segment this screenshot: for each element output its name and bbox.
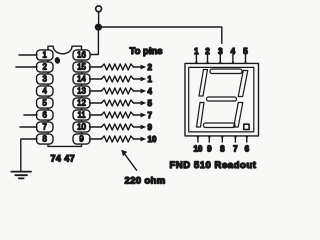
resistor R2 220 ohm — [102, 76, 134, 82]
terminal V+ — [96, 6, 102, 12]
pin 10 of U1 — [73, 122, 90, 132]
decimal point — [244, 124, 249, 129]
svg-text:7: 7 — [148, 111, 153, 120]
svg-text:10: 10 — [148, 135, 157, 144]
wire junction to display pin 3 — [99, 27, 222, 43]
resistor R4 220 ohm — [102, 100, 134, 106]
svg-text:9: 9 — [79, 135, 83, 144]
svg-text:3: 3 — [43, 75, 47, 84]
segment g — [207, 97, 237, 101]
wire lead pin 11 to resistor R5 — [90, 114, 102, 116]
svg-text:220 ohm: 220 ohm — [125, 176, 166, 187]
resistor R7 220 ohm — [102, 136, 134, 142]
pin 4 of U1 — [37, 86, 54, 96]
resistor R1 220 ohm — [102, 64, 134, 70]
wire pin 8 to ground — [21, 139, 37, 171]
svg-text:1: 1 — [148, 75, 153, 84]
pin 4 of display (top) — [231, 47, 236, 64]
pin 5 of display (top) — [243, 47, 248, 64]
pin 11 of U1 — [73, 110, 90, 120]
svg-text:To pins: To pins — [130, 46, 163, 57]
IC U1 7447 body — [48, 46, 82, 146]
svg-text:9: 9 — [148, 123, 153, 132]
svg-text:74 47: 74 47 — [51, 154, 76, 164]
wire junction to pin 16 — [90, 27, 99, 54]
pin 14 of U1 — [73, 74, 90, 84]
junction node — [95, 24, 102, 31]
pin 10 of display (bottom) — [193, 136, 202, 154]
arrow to display pin 1 — [134, 77, 147, 82]
wire lead pin 14 to resistor R2 — [90, 78, 102, 80]
svg-text:2: 2 — [205, 47, 210, 56]
arrow to display pin 2 — [134, 65, 147, 70]
svg-text:13: 13 — [77, 87, 86, 96]
svg-text:15: 15 — [77, 63, 86, 72]
svg-text:10: 10 — [193, 145, 202, 154]
svg-text:2: 2 — [43, 63, 47, 72]
svg-text:12: 12 — [77, 99, 86, 108]
svg-text:8: 8 — [43, 135, 47, 144]
svg-text:3: 3 — [218, 47, 223, 56]
wire lead pin 9 to resistor R7 — [90, 138, 102, 140]
pin 2 of display (top) — [205, 47, 210, 64]
svg-text:14: 14 — [77, 75, 86, 84]
display U2 FND510 package outer — [185, 63, 259, 135]
arrow to display pin 7 — [134, 113, 147, 118]
pin 8 of display (bottom) — [220, 136, 225, 154]
pin 12 of U1 — [73, 98, 90, 108]
svg-text:FND 510 Readout: FND 510 Readout — [170, 160, 257, 171]
wire lead pin 10 to resistor R6 — [90, 126, 102, 128]
wire lead pin 12 to resistor R4 — [90, 102, 102, 104]
svg-text:8: 8 — [220, 145, 225, 154]
ground — [11, 172, 31, 179]
pin 15 of U1 — [73, 62, 90, 72]
svg-text:5: 5 — [243, 47, 248, 56]
arrow to display pin 5 — [134, 101, 147, 106]
wire pin 1 input stub — [19, 54, 37, 56]
pin 2 of U1 — [37, 62, 54, 72]
pin 3 of U1 — [37, 74, 54, 84]
wire pin 2 input stub — [16, 66, 37, 68]
resistor R5 220 ohm — [102, 112, 134, 118]
svg-text:7: 7 — [233, 145, 238, 154]
wire terminal to junction — [98, 12, 100, 24]
pin 1 of U1 — [37, 50, 54, 60]
arrow to display pin 10 — [134, 137, 147, 142]
svg-text:4: 4 — [231, 47, 236, 56]
svg-text:16: 16 — [77, 51, 86, 60]
svg-text:1: 1 — [43, 51, 47, 60]
svg-text:1: 1 — [194, 47, 199, 56]
arrow to display pin 9 — [134, 125, 147, 130]
arrow 220 ohm callout — [121, 150, 136, 171]
pin 9 of U1 — [73, 134, 90, 144]
wire pin 6 input stub — [24, 114, 37, 116]
pin 3 of display (top) — [218, 47, 223, 64]
pin 7 of display (bottom) — [233, 136, 238, 154]
pin 1 of display (top) — [194, 47, 199, 64]
segment e — [197, 103, 205, 128]
svg-text:5: 5 — [43, 99, 48, 108]
svg-text:5: 5 — [148, 99, 153, 108]
wire lead pin 15 to resistor R1 — [90, 66, 102, 68]
svg-text:4: 4 — [43, 87, 48, 96]
pin 1 index dot — [54, 57, 61, 65]
resistor R6 220 ohm — [102, 124, 134, 130]
svg-text:7: 7 — [43, 123, 47, 132]
pin 9 of display (bottom) — [207, 136, 212, 154]
pin 6 of display (bottom) — [245, 136, 250, 154]
pin 8 of U1 — [37, 134, 54, 144]
pin 13 of U1 — [73, 86, 90, 96]
segment f — [199, 70, 208, 97]
svg-text:9: 9 — [207, 145, 212, 154]
svg-text:4: 4 — [148, 87, 153, 96]
arrow to display pin 4 — [134, 89, 147, 94]
segment c — [234, 103, 243, 128]
segment a — [210, 69, 242, 74]
svg-text:10: 10 — [77, 123, 86, 132]
segment b — [238, 71, 248, 97]
pin 16 of U1 — [73, 50, 90, 60]
display package inner border — [189, 67, 254, 131]
pin 6 of U1 — [37, 110, 54, 120]
wire pin 7 input stub — [20, 126, 37, 128]
segment d — [204, 123, 236, 128]
svg-text:6: 6 — [245, 145, 250, 154]
wire lead pin 13 to resistor R3 — [90, 90, 102, 92]
svg-text:2: 2 — [148, 63, 153, 72]
pin 7 of U1 — [37, 122, 54, 132]
resistor R3 220 ohm — [102, 88, 134, 94]
svg-text:11: 11 — [77, 111, 85, 120]
pin 5 of U1 — [37, 98, 54, 108]
svg-text:6: 6 — [43, 111, 47, 120]
